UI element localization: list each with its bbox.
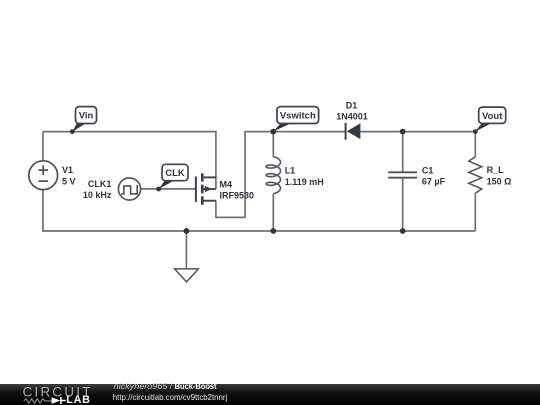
logo zigzag <box>24 399 52 403</box>
node Vout anchor dot <box>473 129 478 134</box>
svg-text:10 kHz: 10 kHz <box>83 190 112 200</box>
flag Vin <box>76 107 97 124</box>
node switch junction dot <box>270 129 276 135</box>
wire inductor bottom lead <box>272 194 274 231</box>
mosfet arrow <box>205 186 212 193</box>
svg-text:150 Ω: 150 Ω <box>487 176 512 186</box>
node CLK anchor dot <box>156 187 161 192</box>
svg-text:C1: C1 <box>422 165 434 175</box>
node inductor bottom junction dot <box>270 228 276 234</box>
wire V1 bottom lead <box>42 190 44 232</box>
resistor R_L <box>469 157 482 193</box>
svg-text:67 µF: 67 µF <box>422 177 446 187</box>
node capacitor top junction dot <box>400 129 406 135</box>
wire CLK1 to gate <box>141 188 196 190</box>
node ground junction dot <box>184 228 190 234</box>
wire bottom rail <box>42 230 475 232</box>
wire top from V1 to MOSFET source <box>43 131 217 133</box>
wire Vout corner down to resistor <box>474 131 476 157</box>
wire switch node to diode <box>273 131 345 133</box>
flag Vin pointer <box>72 123 86 131</box>
svg-text:1N4001: 1N4001 <box>336 111 368 121</box>
wire MOSFET source riser <box>215 131 217 189</box>
wire capacitor top lead <box>402 132 404 173</box>
svg-text:V1: V1 <box>62 165 73 175</box>
wire capacitor bottom lead <box>402 178 404 231</box>
wire MOSFET drain loop <box>216 132 273 218</box>
svg-text:LAB: LAB <box>66 394 91 405</box>
flag Vswitch <box>277 107 319 124</box>
flag Vout <box>479 107 506 123</box>
capacitor C1 <box>388 172 417 177</box>
node capacitor bottom junction dot <box>400 228 406 234</box>
wire resistor bottom lead <box>474 193 476 231</box>
node Vin anchor dot <box>70 129 75 134</box>
wire ground stem <box>185 231 187 269</box>
svg-text:nickyhero965 / Buck-Boost: nickyhero965 / Buck-Boost <box>114 381 217 391</box>
flag Vswitch pointer <box>273 124 290 132</box>
svg-text:Vswitch: Vswitch <box>280 111 316 122</box>
wire diode to Vout corner <box>360 131 475 133</box>
voltage source V1 <box>29 161 58 190</box>
svg-text:M4: M4 <box>220 180 233 190</box>
svg-text:IRF9530: IRF9530 <box>220 191 255 201</box>
flag CLK pointer <box>159 181 174 189</box>
svg-text:CLK: CLK <box>165 168 185 179</box>
mosfet M4 <box>196 173 216 204</box>
svg-text:Vout: Vout <box>482 111 503 122</box>
svg-text:http://circuitlab.com/cv9ttcb2: http://circuitlab.com/cv9ttcb2tnnrj <box>113 392 228 402</box>
svg-text:D1: D1 <box>346 101 358 111</box>
flag CLK <box>162 164 188 180</box>
logo diode <box>52 397 61 404</box>
wire inductor top lead <box>272 132 274 157</box>
wire V1 top lead <box>42 132 44 161</box>
svg-text:R_L: R_L <box>487 165 505 175</box>
svg-text:Vin: Vin <box>79 111 94 122</box>
svg-text:5 V: 5 V <box>62 176 76 186</box>
svg-text:L1: L1 <box>285 166 296 176</box>
inductor L1 <box>266 157 280 194</box>
svg-text:1.119 mH: 1.119 mH <box>285 177 324 187</box>
footer bar <box>0 384 540 405</box>
diode D1 triangle <box>347 123 361 139</box>
flag Vout pointer <box>475 123 491 131</box>
diode D1 bar <box>345 123 347 140</box>
svg-text:CLK1: CLK1 <box>88 179 112 189</box>
clock source CLK1 <box>118 178 140 200</box>
ground <box>175 269 199 282</box>
